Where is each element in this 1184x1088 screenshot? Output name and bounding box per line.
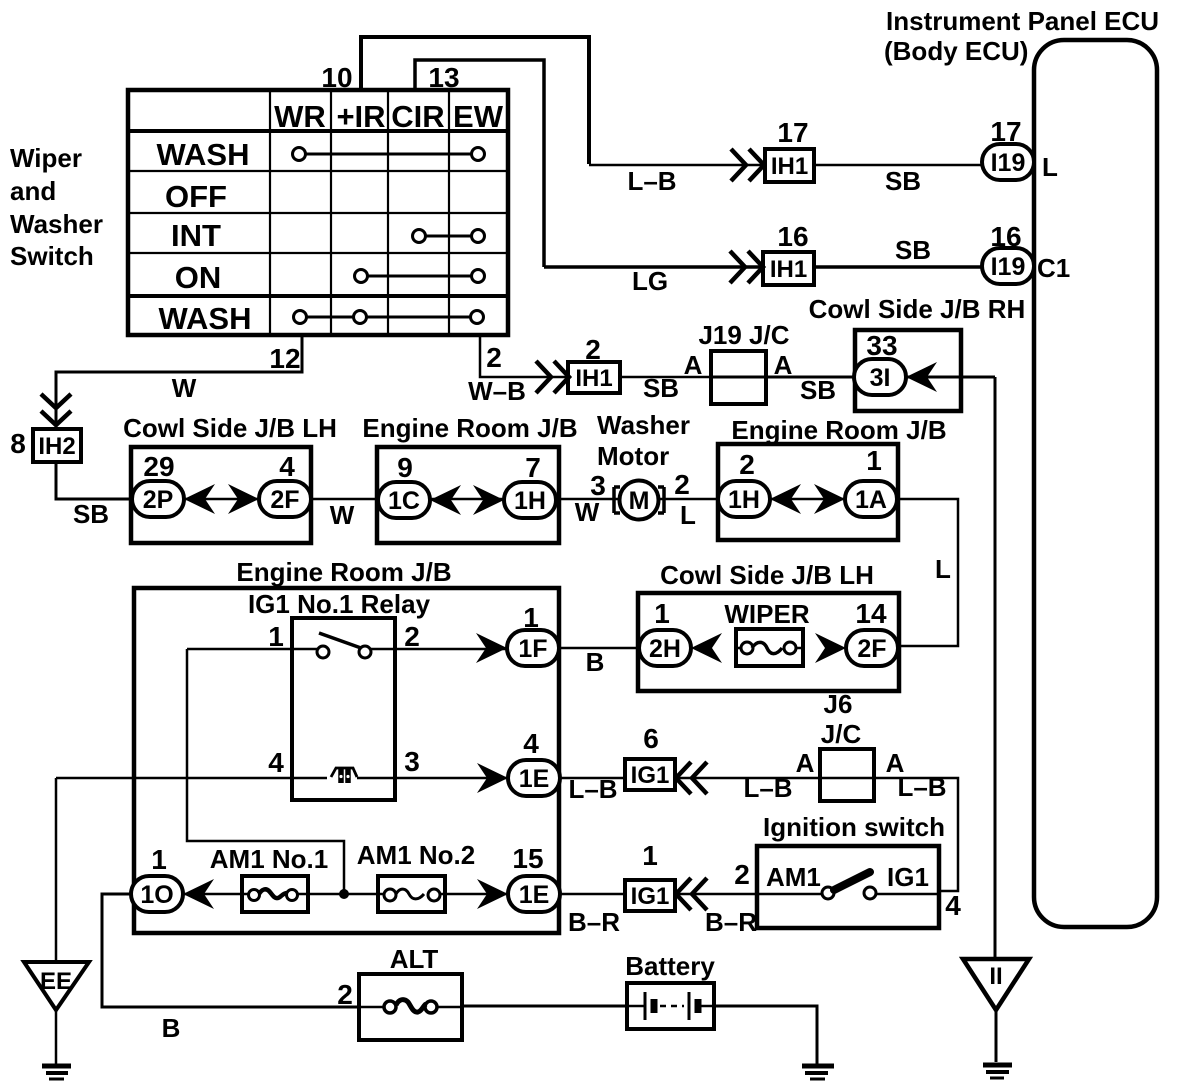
svg-text:29: 29	[143, 451, 174, 482]
svg-text:INT: INT	[171, 218, 221, 253]
svg-text:and: and	[10, 176, 56, 206]
svg-text:L–B: L–B	[627, 166, 676, 196]
svg-text:A: A	[684, 350, 703, 380]
svg-text:B: B	[586, 647, 605, 677]
svg-text:EE: EE	[40, 968, 72, 995]
svg-text:L: L	[1042, 152, 1058, 182]
svg-text:Engine Room J/B: Engine Room J/B	[362, 413, 577, 443]
svg-text:12: 12	[269, 343, 300, 374]
svg-text:WIPER: WIPER	[724, 599, 809, 629]
svg-text:4: 4	[945, 890, 961, 921]
svg-text:1: 1	[523, 602, 539, 633]
svg-text:1C: 1C	[388, 487, 420, 515]
svg-text:33: 33	[866, 330, 897, 361]
svg-text:7: 7	[525, 452, 541, 483]
svg-text:WASH: WASH	[157, 137, 250, 172]
svg-text:2: 2	[585, 334, 601, 365]
svg-text:IG1: IG1	[631, 762, 670, 789]
svg-text:4: 4	[523, 728, 539, 759]
svg-text:1: 1	[268, 621, 284, 652]
svg-text:A: A	[774, 350, 793, 380]
svg-text:SB: SB	[643, 373, 679, 403]
svg-text:WASH: WASH	[159, 301, 252, 336]
svg-text:2: 2	[674, 469, 690, 500]
svg-text:C1: C1	[1037, 253, 1070, 283]
svg-text:Motor: Motor	[597, 441, 669, 471]
svg-text:Wiper: Wiper	[10, 143, 82, 173]
svg-text:A: A	[886, 748, 905, 778]
svg-text:L–B: L–B	[897, 772, 946, 802]
svg-text:IG1 No.1 Relay: IG1 No.1 Relay	[248, 589, 431, 619]
svg-text:LG: LG	[632, 266, 668, 296]
svg-text:Battery: Battery	[625, 951, 715, 981]
svg-text:I19: I19	[991, 149, 1026, 177]
svg-text:4: 4	[268, 747, 284, 778]
svg-text:OFF: OFF	[165, 179, 227, 214]
svg-text:Engine Room J/B: Engine Room J/B	[236, 557, 451, 587]
svg-text:W: W	[330, 500, 355, 530]
svg-text:L: L	[935, 554, 951, 584]
svg-text:W: W	[575, 497, 600, 527]
svg-text:Cowl Side J/B RH: Cowl Side J/B RH	[809, 294, 1026, 324]
svg-text:II: II	[989, 963, 1002, 990]
svg-text:IH1: IH1	[770, 256, 807, 283]
svg-text:SB: SB	[885, 166, 921, 196]
svg-text:A: A	[796, 748, 815, 778]
svg-text:Cowl Side J/B LH: Cowl Side J/B LH	[123, 413, 337, 443]
svg-text:2H: 2H	[649, 635, 681, 663]
svg-text:3I: 3I	[870, 364, 891, 392]
svg-text:Switch: Switch	[10, 241, 94, 271]
svg-text:17: 17	[990, 116, 1021, 147]
svg-text:B–R: B–R	[568, 907, 620, 937]
svg-text:1O: 1O	[140, 881, 173, 909]
svg-text:J6: J6	[824, 689, 853, 719]
svg-text:2: 2	[739, 449, 755, 480]
svg-text:Cowl Side J/B LH: Cowl Side J/B LH	[660, 560, 874, 590]
svg-text:Washer: Washer	[597, 410, 690, 440]
svg-text:13: 13	[428, 62, 459, 93]
svg-text:1: 1	[642, 840, 658, 871]
svg-text:1E: 1E	[519, 881, 550, 909]
svg-text:J19 J/C: J19 J/C	[698, 320, 789, 350]
svg-text:ON: ON	[175, 260, 222, 295]
svg-text:SB: SB	[73, 499, 109, 529]
svg-text:4: 4	[279, 451, 295, 482]
svg-text:WR: WR	[274, 99, 326, 134]
svg-text:2F: 2F	[270, 486, 299, 514]
svg-text:16: 16	[777, 221, 808, 252]
svg-text:CIR: CIR	[391, 99, 444, 134]
svg-text:Washer: Washer	[10, 209, 103, 239]
svg-text:17: 17	[777, 117, 808, 148]
svg-text:2F: 2F	[857, 635, 886, 663]
svg-text:1: 1	[151, 844, 167, 875]
svg-text:L–B: L–B	[743, 773, 792, 803]
svg-text:Ignition switch: Ignition switch	[763, 812, 945, 842]
svg-text:1H: 1H	[728, 486, 760, 514]
svg-text:W: W	[172, 373, 197, 403]
svg-text:1E: 1E	[519, 765, 550, 793]
svg-text:AM1: AM1	[766, 862, 821, 892]
svg-text:AM1 No.2: AM1 No.2	[357, 840, 475, 870]
svg-text:L–B: L–B	[568, 774, 617, 804]
svg-text:IG1: IG1	[887, 862, 929, 892]
svg-text:+IR: +IR	[336, 99, 385, 134]
svg-text:10: 10	[321, 62, 352, 93]
svg-text:(Body ECU): (Body ECU)	[884, 36, 1028, 66]
svg-text:M: M	[629, 487, 650, 515]
svg-text:3: 3	[404, 746, 420, 777]
svg-text:6: 6	[643, 723, 659, 754]
svg-text:14: 14	[855, 598, 887, 629]
svg-text:2: 2	[734, 859, 750, 890]
svg-text:IH1: IH1	[771, 153, 808, 180]
svg-text:J/C: J/C	[821, 719, 862, 749]
svg-text:ALT: ALT	[390, 944, 439, 974]
svg-text:B–R: B–R	[705, 907, 757, 937]
svg-text:L: L	[680, 500, 696, 530]
svg-text:8: 8	[10, 428, 26, 459]
svg-text:2: 2	[337, 979, 353, 1010]
svg-text:16: 16	[990, 221, 1021, 252]
svg-text:Engine Room J/B: Engine Room J/B	[731, 415, 946, 445]
svg-text:SB: SB	[800, 375, 836, 405]
svg-text:SB: SB	[895, 235, 931, 265]
svg-text:W–B: W–B	[468, 376, 526, 406]
svg-text:2: 2	[486, 342, 502, 373]
svg-text:Instrument Panel ECU: Instrument Panel ECU	[886, 6, 1159, 36]
svg-text:1A: 1A	[855, 486, 887, 514]
svg-text:AM1 No.1: AM1 No.1	[210, 844, 328, 874]
svg-text:I19: I19	[991, 253, 1026, 281]
svg-text:2: 2	[404, 621, 420, 652]
svg-text:9: 9	[397, 452, 413, 483]
svg-text:B: B	[162, 1013, 181, 1043]
svg-text:IH1: IH1	[575, 365, 612, 392]
svg-text:1: 1	[866, 445, 882, 476]
svg-text:2P: 2P	[143, 486, 174, 514]
svg-text:IH2: IH2	[38, 433, 75, 460]
svg-text:15: 15	[512, 843, 543, 874]
svg-text:1: 1	[654, 598, 670, 629]
svg-text:EW: EW	[453, 99, 504, 134]
svg-text:1F: 1F	[518, 635, 547, 663]
svg-text:IG1: IG1	[631, 883, 670, 910]
svg-text:1H: 1H	[514, 487, 546, 515]
